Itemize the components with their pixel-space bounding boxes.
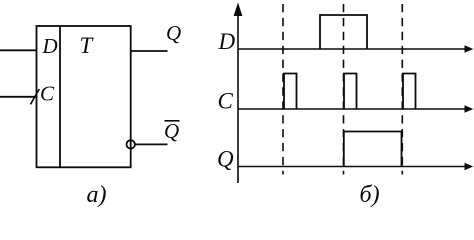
dashed timing marker line 1 bbox=[282, 4, 284, 175]
label Q (direct output) bbox=[166, 21, 181, 45]
svg-text:Q: Q bbox=[166, 21, 181, 45]
C signal axis with arrow bbox=[238, 105, 473, 113]
svg-text:Q: Q bbox=[217, 146, 234, 171]
pin label C (flip-flop clock input) bbox=[40, 82, 55, 106]
wire Q output bbox=[131, 50, 168, 52]
dashed timing marker line 3 bbox=[401, 4, 403, 175]
svg-text:б): б) bbox=[360, 182, 380, 208]
svg-text:C: C bbox=[40, 82, 55, 106]
timing label Q bbox=[217, 146, 234, 171]
timing label C bbox=[218, 89, 234, 114]
timing label D bbox=[218, 29, 236, 54]
C waveform pulse 2 bbox=[344, 74, 357, 110]
wire C input bbox=[0, 96, 37, 98]
D waveform pulse bbox=[320, 15, 367, 49]
pin label D (flip-flop data input) bbox=[42, 34, 58, 58]
caption a) bbox=[87, 182, 107, 208]
wire Q-bar output bbox=[135, 143, 168, 145]
svg-text:D: D bbox=[218, 29, 236, 54]
svg-text:T: T bbox=[80, 33, 95, 58]
dashed timing marker line 2 bbox=[343, 4, 345, 175]
wire D input bbox=[0, 49, 37, 51]
caption b) bbox=[360, 182, 380, 208]
svg-text:D: D bbox=[42, 34, 58, 58]
inversion bubble bbox=[127, 140, 135, 148]
C waveform pulse 1 bbox=[284, 74, 297, 110]
Q signal axis with arrow bbox=[238, 163, 473, 171]
Q waveform pulse bbox=[344, 132, 402, 167]
flip-flop U1 body bbox=[37, 26, 131, 167]
flip-flop U1 divider line bbox=[59, 26, 61, 167]
svg-text:а): а) bbox=[87, 182, 107, 208]
C waveform pulse 3 bbox=[403, 74, 416, 110]
dynamic-input slash on C bbox=[31, 89, 40, 104]
label Q-bar (inverse output) bbox=[164, 119, 180, 143]
D signal axis with arrow bbox=[238, 45, 473, 53]
timing vertical axis with arrow bbox=[234, 3, 243, 184]
svg-text:Q: Q bbox=[164, 119, 179, 143]
label T (trigger designation) bbox=[80, 33, 95, 58]
svg-text:C: C bbox=[218, 89, 234, 114]
